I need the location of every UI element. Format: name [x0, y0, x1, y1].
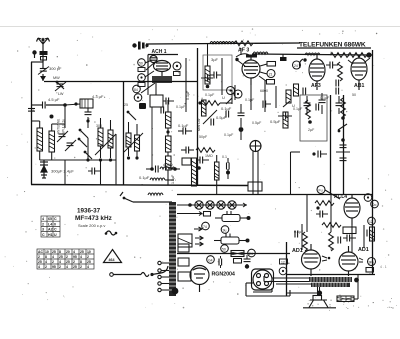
padder capacitor	[85, 112, 92, 115]
left terminal circle lower	[134, 94, 142, 102]
svg-text:50: 50	[139, 61, 143, 65]
mains plug symbol	[132, 43, 136, 47]
osc trimmer arrow 2	[124, 133, 143, 152]
svg-text:25: 25	[87, 260, 91, 264]
svg-text:LW: LW	[58, 92, 64, 96]
svg-text:AD1: AD1	[358, 247, 369, 253]
osc trimmer arrow	[95, 134, 116, 155]
grid cap bar	[246, 55, 257, 58]
terminal circle Tu	[364, 194, 372, 202]
IF transformer T1 primary coil	[205, 55, 210, 88]
svg-text:25: 25	[66, 260, 70, 264]
field coil	[337, 296, 354, 302]
svg-text:95: 95	[73, 255, 77, 259]
bias resistor stack Rc	[166, 156, 172, 170]
dial lamps row	[177, 204, 247, 206]
warning triangle 464	[104, 250, 122, 263]
svg-text:2: 2	[52, 260, 54, 264]
terminal box below Sh	[174, 72, 181, 76]
screen resistor vertical	[338, 62, 343, 81]
junction dot osc	[50, 115, 54, 119]
wire can stub	[207, 44, 209, 55]
left terminal box	[138, 68, 145, 72]
interstage caps	[330, 62, 333, 69]
ground chassis left	[40, 160, 48, 178]
svg-text:24: 24	[294, 64, 298, 68]
junction dots RF	[99, 158, 102, 161]
cathode resistor R2	[108, 120, 113, 158]
osc anode coil L3	[126, 122, 131, 156]
svg-text:ACL4: ACL4	[334, 194, 347, 200]
mains switch S2	[120, 192, 123, 196]
tuning gang capacitor with arrows	[59, 134, 66, 137]
svg-text:0.1µF: 0.1µF	[139, 175, 150, 180]
svg-text:RGN2004: RGN2004	[212, 272, 235, 278]
wire switch to transformer	[133, 201, 172, 203]
pilot resistor squiggle	[148, 193, 163, 195]
detector wiring verticals	[222, 58, 276, 112]
bypass cap below	[161, 107, 164, 114]
svg-text:50pF: 50pF	[199, 135, 208, 139]
decoupling capacitor C12	[186, 147, 189, 154]
wire stage shield vertical	[197, 48, 199, 185]
svg-text:95: 95	[52, 265, 56, 269]
svg-text:6800: 6800	[260, 89, 268, 93]
RC parallel unit 2	[214, 234, 246, 245]
terminal circle Sh	[173, 62, 181, 70]
svg-text:0.5µF: 0.5µF	[270, 119, 281, 124]
terminal box TH	[234, 259, 242, 264]
tube top cap lead	[236, 54, 251, 57]
heater bypass caps row	[304, 103, 311, 106]
svg-text:0.1µF: 0.1µF	[205, 93, 215, 97]
svg-text:4: 4	[59, 260, 61, 264]
switch U1	[226, 98, 232, 104]
terminal circle 9u	[221, 226, 229, 234]
terminal circle Fu	[317, 186, 325, 194]
svg-text:2: 2	[66, 255, 68, 259]
bias block rect	[178, 234, 192, 247]
svg-text:4: 4	[73, 250, 75, 254]
earth terminal dot	[32, 50, 36, 54]
grid resistors above AD1	[303, 232, 308, 251]
IF trimmer cap T1	[214, 72, 217, 79]
terminal blob	[139, 103, 146, 109]
svg-text:0.1µF: 0.1µF	[293, 107, 303, 111]
svg-text:84: 84	[134, 88, 138, 92]
svg-text:50: 50	[352, 93, 356, 97]
tuning indicator leads	[252, 151, 254, 194]
wire tube leads	[141, 60, 156, 95]
svg-text:U: U	[54, 233, 57, 237]
IF can outline	[203, 55, 232, 90]
svg-text:4: 4	[42, 217, 44, 221]
svg-text:21: 21	[269, 72, 273, 76]
HT dropper cluster	[340, 145, 347, 148]
vertical feeds to output stage	[302, 194, 364, 252]
svg-text:AD1: AD1	[292, 248, 303, 254]
coupling cap 2	[336, 80, 339, 87]
tube AF3	[242, 55, 260, 85]
wire right frame	[372, 50, 374, 274]
tube socket bottom view	[252, 269, 274, 290]
smoothing cap 2	[244, 259, 251, 262]
svg-text:AF 3: AF 3	[238, 48, 249, 54]
svg-text:4.5 µF: 4.5 µF	[48, 97, 60, 102]
coupling coil squiggle bus2	[253, 52, 268, 54]
band switch mid	[79, 129, 82, 132]
screen grid resistor row	[201, 101, 220, 106]
svg-text:8: 8	[45, 255, 47, 259]
svg-text:ANTENNE: ANTENNE	[57, 119, 61, 134]
scattered value labels	[96, 89, 356, 251]
svg-text:H1: H1	[48, 233, 53, 237]
junction dot bottom rail	[86, 158, 89, 161]
heater connector box	[248, 182, 262, 191]
left terminal circle BA	[138, 59, 146, 67]
svg-text:10: 10	[45, 250, 49, 254]
wire returns to bottom frame	[31, 121, 116, 184]
junction dot under caps	[245, 264, 249, 268]
smoothing caps 1uF	[219, 259, 222, 266]
HT smoothing bus	[177, 253, 290, 255]
svg-text:L4: L4	[48, 222, 52, 226]
svg-text:MW LW: MW LW	[197, 118, 201, 131]
detector line down	[238, 113, 245, 116]
svg-text:0.1µF: 0.1µF	[245, 98, 255, 102]
band switch contacts	[78, 138, 81, 141]
svg-text:1936-37: 1936-37	[77, 208, 101, 215]
grid cap AF3-2	[303, 58, 306, 61]
svg-text:12: 12	[281, 260, 285, 264]
static discharge arrester	[40, 76, 46, 81]
svg-text:MW: MW	[53, 76, 60, 80]
voltage table large	[37, 249, 94, 269]
svg-text:24: 24	[249, 252, 253, 256]
svg-text:25: 25	[38, 260, 42, 264]
padding capacitor block	[80, 99, 93, 108]
svg-text:C: C	[42, 233, 45, 237]
wire AF3 leads	[232, 48, 267, 110]
wire top RF bus	[44, 81, 197, 83]
wire inner divider	[123, 81, 125, 185]
AF coupling cap	[227, 163, 230, 170]
switch U2	[283, 101, 290, 107]
svg-text:25: 25	[124, 103, 128, 107]
svg-text:AC: AC	[38, 250, 43, 254]
svg-text:C: C	[54, 228, 57, 232]
grid leak resistor vertical	[202, 100, 207, 116]
right terminal circle 12a	[368, 217, 376, 225]
wave-change switch S1	[56, 81, 59, 84]
series capacitor on left rail	[28, 109, 35, 112]
svg-text:464: 464	[109, 258, 115, 262]
svg-text:0: 0	[54, 222, 56, 226]
svg-text:A2: A2	[48, 228, 53, 232]
terminal box MW	[267, 62, 276, 67]
terminal box 12 mid	[280, 259, 288, 264]
heater feed row 2	[177, 213, 200, 215]
terminal circle 74	[202, 222, 210, 230]
grid resistor R1	[98, 118, 103, 158]
svg-text:8: 8	[59, 250, 61, 254]
svg-text:25: 25	[52, 250, 56, 254]
terminal circle G	[227, 87, 235, 95]
RC parallel unit 1	[215, 211, 247, 222]
tube ACL4	[344, 194, 360, 225]
mains cord plug circle	[110, 273, 114, 277]
feedback cap right	[367, 230, 370, 237]
svg-text:25: 25	[59, 255, 63, 259]
svg-text:0.1µF: 0.1µF	[186, 90, 190, 100]
trimmer cap with arrow	[57, 84, 64, 87]
triode plate arrow	[146, 62, 155, 70]
fuse symbol small	[106, 231, 116, 235]
svg-text:C: C	[54, 217, 57, 221]
grid cap arrow	[237, 60, 245, 66]
transformer secondary boxes	[178, 244, 189, 252]
svg-text:AF3: AF3	[311, 83, 321, 89]
power transformer winding bar	[169, 202, 176, 296]
smoothing choke	[231, 251, 244, 257]
left terminal circle 84	[133, 85, 141, 93]
svg-text:4: 4	[38, 265, 40, 269]
svg-text:300: 300	[96, 124, 102, 128]
svg-text:12: 12	[369, 220, 373, 224]
left terminal box 2	[138, 83, 145, 87]
output transformer primary	[309, 277, 352, 282]
wire antenna to bus	[42, 60, 44, 68]
osc grid coil L4	[135, 124, 140, 158]
aerial coil L1	[37, 121, 43, 160]
terminal circle mid	[279, 267, 287, 275]
wire osc section	[40, 105, 116, 160]
hexode screen label block	[152, 76, 172, 83]
terminal circle Do	[371, 200, 379, 208]
svg-text:4 . 1: 4 . 1	[380, 265, 387, 269]
wire output bus	[286, 274, 375, 276]
wire HT vertical	[343, 95, 345, 194]
tone box	[343, 227, 356, 234]
svg-text:Fu: Fu	[319, 188, 323, 192]
cap det2	[283, 113, 286, 120]
wire cathode return	[151, 107, 153, 169]
extra caps detector	[211, 119, 214, 126]
wire AVC bus	[177, 194, 372, 196]
svg-text:2: 2	[59, 265, 61, 269]
heater dropper row: dot cap coil dot	[150, 167, 154, 171]
svg-text:MF=473 kHz: MF=473 kHz	[75, 215, 112, 222]
svg-text:10: 10	[87, 250, 91, 254]
AF choke hatched	[283, 112, 288, 128]
svg-text:2: 2	[38, 255, 40, 259]
tuning indicator tube	[250, 141, 261, 152]
sub box outline right	[300, 95, 327, 141]
svg-text:25: 25	[73, 265, 77, 269]
svg-text:50: 50	[222, 247, 226, 251]
wire top mains bus	[146, 43, 300, 44]
svg-text:1.5µF: 1.5µF	[171, 174, 175, 184]
svg-text:0.1µF: 0.1µF	[221, 106, 232, 111]
AVC resistor network	[196, 148, 215, 153]
diag adjuster arrow	[203, 110, 217, 124]
antenna coupling block	[40, 51, 48, 55]
svg-text:2: 2	[42, 222, 44, 226]
svg-text:400Ω: 400Ω	[163, 162, 173, 167]
rectifier tube RGN2004	[190, 266, 209, 293]
svg-text:Scale 200 c.p.v: Scale 200 c.p.v	[78, 223, 105, 228]
svg-text:.: .	[385, 255, 386, 259]
svg-text:0.1: 0.1	[222, 155, 227, 159]
wire title underline	[297, 47, 371, 49]
decoupling resistor stack Rb	[166, 136, 172, 152]
svg-text:2: 2	[73, 260, 75, 264]
svg-text:65: 65	[48, 217, 52, 221]
anode load resistor stack Ra	[166, 112, 172, 128]
svg-text:U: U	[222, 95, 225, 100]
small rc box	[182, 158, 191, 165]
terminal circle B	[234, 90, 242, 98]
AD1 left grid marks	[322, 256, 327, 261]
svg-text:2: 2	[45, 265, 47, 269]
coupling capacitor pair	[183, 128, 186, 135]
tube AD1 right	[339, 246, 358, 276]
AD1 right marks	[359, 258, 363, 262]
wire output stage left vertical	[286, 242, 288, 296]
decoupling cap stub	[282, 54, 284, 57]
terminal circle 21	[267, 70, 275, 78]
terminal circle 24b	[248, 249, 256, 257]
terminal circle 50	[221, 245, 229, 253]
cap row under subbox	[312, 152, 315, 155]
oscillator coil L2	[49, 124, 55, 160]
vertical wire tube right	[185, 58, 187, 112]
cathode RC box	[150, 95, 163, 107]
svg-text:4: 4	[52, 255, 54, 259]
svg-text:0.1µF: 0.1µF	[224, 133, 234, 137]
tube AD1 left	[302, 244, 321, 276]
svg-text:8: 8	[80, 260, 82, 264]
speaker	[303, 296, 336, 308]
wire speaker connects	[272, 275, 358, 299]
AB1 diode arrows	[348, 60, 353, 64]
svg-text:4: 4	[80, 255, 82, 259]
svg-text:4.3 µF: 4.3 µF	[92, 94, 104, 99]
IF2 resistor	[286, 90, 291, 103]
left terminal circle BC	[138, 74, 146, 82]
svg-text:2µF: 2µF	[308, 128, 315, 132]
mains cord	[113, 274, 141, 276]
terminal box 12b	[366, 268, 374, 273]
svg-text:9u: 9u	[223, 228, 227, 232]
svg-text:3: 3	[42, 228, 44, 232]
svg-text:4: 4	[45, 260, 47, 264]
svg-text:74: 74	[203, 225, 207, 229]
wire left frame vertical	[31, 62, 33, 185]
socket wiring L	[246, 276, 310, 296]
svg-text:0.1µF: 0.1µF	[176, 105, 186, 109]
IF2 coil assembly right	[294, 84, 299, 96]
res cap inside subbox	[306, 100, 311, 119]
svg-text:300 pF: 300 pF	[49, 66, 62, 71]
svg-text:3µF: 3µF	[211, 57, 219, 62]
svg-text:300µF 2.4µF: 300µF 2.4µF	[51, 169, 74, 174]
terminal circle 24	[293, 61, 301, 69]
svg-text:9Fu: 9Fu	[369, 260, 375, 264]
svg-text:25: 25	[80, 250, 84, 254]
bottom rail cap	[92, 168, 95, 175]
svg-text:G4: G4	[208, 258, 213, 262]
antenna	[37, 38, 50, 62]
tone caps	[347, 235, 350, 242]
tone resistor row	[322, 223, 341, 228]
trimmer capacitor antenna	[40, 69, 47, 72]
terminal circle G4	[207, 256, 215, 264]
arrows from bias block	[195, 236, 203, 240]
osc coupling cap	[205, 75, 208, 82]
terminal box 9B	[204, 212, 211, 217]
switch on HT	[338, 124, 347, 130]
svg-text:1MΩ: 1MΩ	[205, 154, 213, 158]
volume pot hatched	[215, 155, 220, 194]
arrow row 3	[194, 227, 202, 231]
svg-text:Do: Do	[372, 203, 376, 207]
svg-text:4: 4	[66, 265, 68, 269]
svg-text:4: 4	[87, 265, 89, 269]
hf shield hatch bar	[192, 158, 197, 186]
svg-text:0.5µF: 0.5µF	[216, 115, 227, 120]
transformer terminals	[158, 261, 169, 291]
terminal circle 9Fu	[368, 258, 376, 266]
cathode caps ACL4	[320, 211, 323, 218]
HT line components	[341, 98, 346, 117]
line filter coil on bus	[210, 42, 225, 44]
svg-text:2: 2	[87, 255, 89, 259]
output transformer secondary	[311, 283, 350, 287]
second HF bus with coils	[252, 54, 372, 55]
svg-text:0.1µF: 0.1µF	[178, 123, 189, 128]
svg-text:2: 2	[80, 265, 82, 269]
wire bottom of RF block	[31, 185, 248, 186]
svg-text:20: 20	[66, 250, 70, 254]
transformer bottom blob	[172, 288, 179, 295]
wire screen vertical	[330, 95, 332, 195]
wire resistor stack	[167, 100, 169, 112]
feedback resistor right	[370, 227, 375, 241]
detector caps below AF3-2	[303, 88, 306, 95]
detector output wire	[290, 152, 292, 195]
valve data table small	[41, 216, 60, 237]
svg-text:0.5µF: 0.5µF	[252, 121, 262, 125]
terminal box BC2	[267, 80, 275, 85]
wave switch section 2	[127, 111, 130, 114]
junction dots output	[354, 278, 359, 283]
grid resistor ACL4	[315, 201, 334, 206]
